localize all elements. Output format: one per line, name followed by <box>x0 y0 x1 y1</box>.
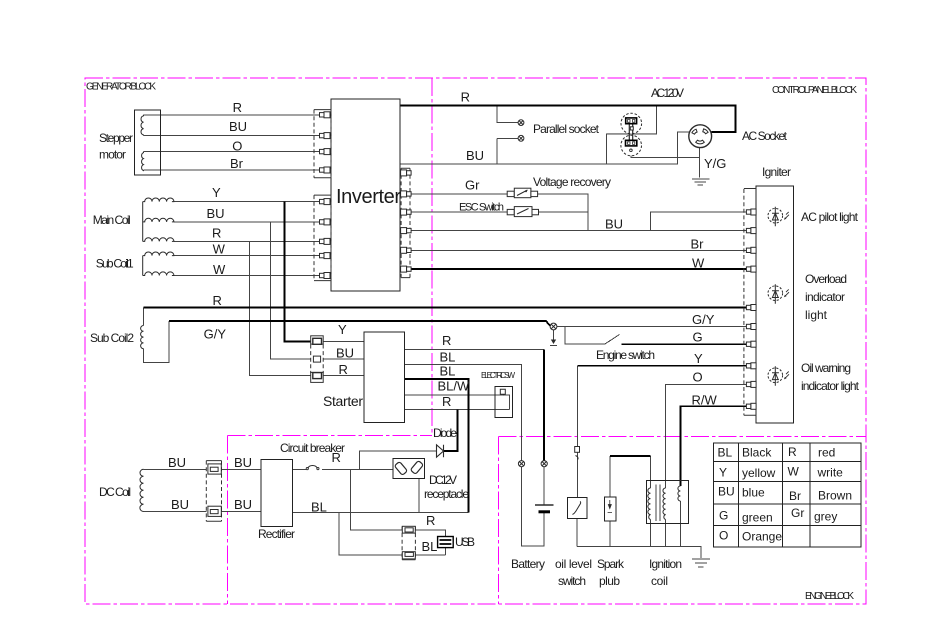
svg-text:AC 120V: AC 120V <box>651 86 684 100</box>
svg-text:G: G <box>719 509 728 523</box>
svg-text:Rectifier: Rectifier <box>258 527 295 541</box>
svg-text:Y: Y <box>719 465 727 479</box>
svg-text:Y: Y <box>338 322 347 337</box>
svg-text:motor: motor <box>99 148 126 162</box>
svg-text:ESC Switch: ESC Switch <box>459 202 504 214</box>
svg-text:Br: Br <box>230 156 244 171</box>
svg-text:oil level: oil level <box>555 557 592 571</box>
svg-text:BU: BU <box>168 455 186 470</box>
svg-text:BL: BL <box>440 364 456 379</box>
svg-text:Spark: Spark <box>597 557 625 571</box>
svg-text:Sub Coil2: Sub Coil2 <box>90 331 134 345</box>
svg-text:BU: BU <box>336 346 354 361</box>
svg-text:Voltage recovery: Voltage recovery <box>533 175 611 189</box>
svg-text:BL: BL <box>440 350 456 365</box>
svg-text:R: R <box>442 394 451 409</box>
svg-text:AC Socket: AC Socket <box>742 129 788 143</box>
svg-text:Br: Br <box>691 237 705 252</box>
svg-text:Stepper: Stepper <box>99 131 133 145</box>
svg-text:Sub Coil1: Sub Coil1 <box>96 257 134 271</box>
svg-text:O: O <box>719 529 728 543</box>
svg-text:Y: Y <box>694 351 703 366</box>
svg-text:Gr: Gr <box>791 506 804 520</box>
svg-text:light: light <box>805 308 828 322</box>
svg-text:R/W: R/W <box>692 393 718 408</box>
svg-text:Br: Br <box>789 489 801 503</box>
svg-text:yellow: yellow <box>742 466 776 480</box>
svg-text:R: R <box>426 513 435 528</box>
svg-text:Engine switch: Engine switch <box>596 348 655 362</box>
svg-text:O: O <box>693 370 703 385</box>
svg-text:G: G <box>693 330 703 345</box>
svg-text:BL: BL <box>311 500 327 515</box>
svg-text:Parallel socket: Parallel socket <box>533 122 600 136</box>
svg-text:W: W <box>213 262 226 277</box>
svg-text:Inverter: Inverter <box>336 186 401 208</box>
svg-text:coil: coil <box>651 574 668 588</box>
svg-text:switch: switch <box>558 574 586 588</box>
svg-text:W: W <box>213 242 226 257</box>
svg-text:BU: BU <box>466 148 484 163</box>
svg-text:G/Y: G/Y <box>692 312 715 327</box>
svg-text:Igniter: Igniter <box>762 165 791 179</box>
svg-text:BL: BL <box>718 446 733 460</box>
svg-text:green: green <box>742 511 773 525</box>
svg-text:Brown: Brown <box>818 489 852 503</box>
svg-text:AC pilot light: AC pilot light <box>801 210 859 224</box>
svg-text:DC12V: DC12V <box>429 473 457 487</box>
svg-text:Main Coil: Main Coil <box>93 213 131 227</box>
svg-text:BL/W: BL/W <box>438 379 471 394</box>
svg-text:W: W <box>692 256 705 271</box>
svg-text:Overload: Overload <box>805 272 847 286</box>
svg-text:ELECTRIC SW: ELECTRIC SW <box>481 371 515 380</box>
svg-text:ENGINE BLOCK: ENGINE BLOCK <box>805 591 854 602</box>
svg-text:Ignition: Ignition <box>649 557 682 571</box>
svg-text:indicator: indicator <box>805 290 845 304</box>
svg-text:R: R <box>213 293 222 308</box>
svg-text:R: R <box>788 445 797 459</box>
svg-text:BU: BU <box>234 455 252 470</box>
svg-text:R: R <box>442 333 451 348</box>
svg-text:Orange: Orange <box>742 530 782 544</box>
svg-text:BU: BU <box>718 485 735 499</box>
svg-text:Black: Black <box>742 446 772 460</box>
svg-text:BU: BU <box>605 217 623 232</box>
svg-text:R: R <box>461 90 470 105</box>
svg-text:BU: BU <box>229 119 247 134</box>
svg-text:Y: Y <box>212 185 221 200</box>
svg-text:R: R <box>212 226 221 241</box>
svg-text:red: red <box>818 446 835 460</box>
svg-text:Circuit breaker: Circuit breaker <box>280 441 345 455</box>
svg-text:Starter: Starter <box>323 393 363 409</box>
svg-text:indicator light: indicator light <box>801 379 860 393</box>
svg-text:Oil warning: Oil warning <box>801 361 851 375</box>
svg-text:R: R <box>339 362 348 377</box>
svg-text:USB: USB <box>455 535 475 549</box>
svg-text:Battery: Battery <box>511 557 545 571</box>
svg-text:BL: BL <box>422 539 438 554</box>
svg-text:BU: BU <box>234 497 252 512</box>
svg-text:Diode: Diode <box>433 426 457 440</box>
svg-text:grey: grey <box>814 510 837 524</box>
svg-text:W: W <box>788 464 800 478</box>
svg-text:receptacle: receptacle <box>424 487 469 501</box>
svg-text:write: write <box>817 465 844 479</box>
svg-text:BU: BU <box>207 206 225 221</box>
svg-text:GENERATOR BLOCK: GENERATOR BLOCK <box>86 82 156 93</box>
svg-text:blue: blue <box>742 485 765 499</box>
svg-text:CONTROL PANEL BLOCK: CONTROL PANEL BLOCK <box>772 85 857 96</box>
svg-text:BU: BU <box>171 497 189 512</box>
svg-text:R: R <box>233 100 242 115</box>
svg-text:Y/G: Y/G <box>704 156 726 171</box>
svg-text:DC Coil: DC Coil <box>99 485 131 499</box>
svg-text:G/Y: G/Y <box>204 327 227 342</box>
svg-text:Gr: Gr <box>465 178 480 193</box>
svg-text:O: O <box>232 139 242 154</box>
svg-text:plub: plub <box>599 574 620 588</box>
